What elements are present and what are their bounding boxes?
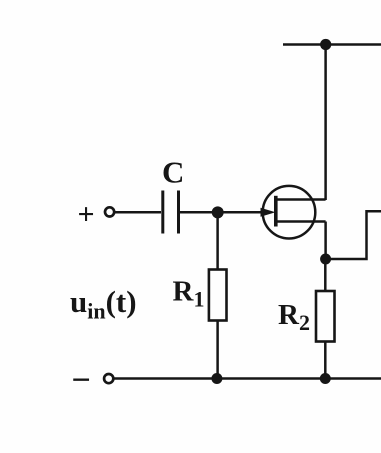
- wire R1 bottom to ground rail: [216, 321, 219, 379]
- terminal + input circle: [105, 207, 114, 216]
- wire drain to top rail: [324, 45, 327, 201]
- node gate junction: [212, 206, 224, 218]
- svg-text:R2: R2: [278, 299, 310, 335]
- transistor Q1 gate arrow: [261, 208, 276, 217]
- node source junction: [320, 254, 331, 265]
- wire source down to node: [324, 222, 327, 260]
- svg-text:+: +: [78, 198, 95, 231]
- resistor R2: [316, 291, 335, 342]
- capacitor C left plate: [161, 191, 164, 234]
- wire output step: [326, 211, 381, 259]
- svg-text:R1: R1: [173, 276, 205, 312]
- terminal - input circle: [104, 374, 113, 383]
- wire R2 bottom to ground rail: [324, 342, 327, 379]
- wire bottom ground rail: [114, 377, 381, 380]
- wire source lead: [276, 220, 326, 223]
- svg-text:−: −: [72, 362, 91, 399]
- wire node to R2 top: [324, 259, 327, 291]
- wire top supply rail: [283, 43, 381, 46]
- transistor Q1 channel bar: [274, 196, 278, 227]
- svg-text:C: C: [162, 155, 184, 190]
- resistor R1: [209, 270, 227, 321]
- node junction on top rail: [320, 39, 331, 50]
- wire capacitor to gate: [180, 211, 262, 214]
- wire gate node down to R1 top: [216, 212, 219, 269]
- transistor Q1 envelope circle: [263, 186, 316, 239]
- capacitor C right plate: [177, 191, 180, 234]
- wire input terminal to capacitor: [115, 211, 162, 214]
- node R1 ground junction: [211, 373, 222, 384]
- node R2 ground junction: [320, 373, 331, 384]
- svg-text:uin(t): uin(t): [70, 284, 137, 324]
- wire drain lead: [276, 198, 326, 201]
